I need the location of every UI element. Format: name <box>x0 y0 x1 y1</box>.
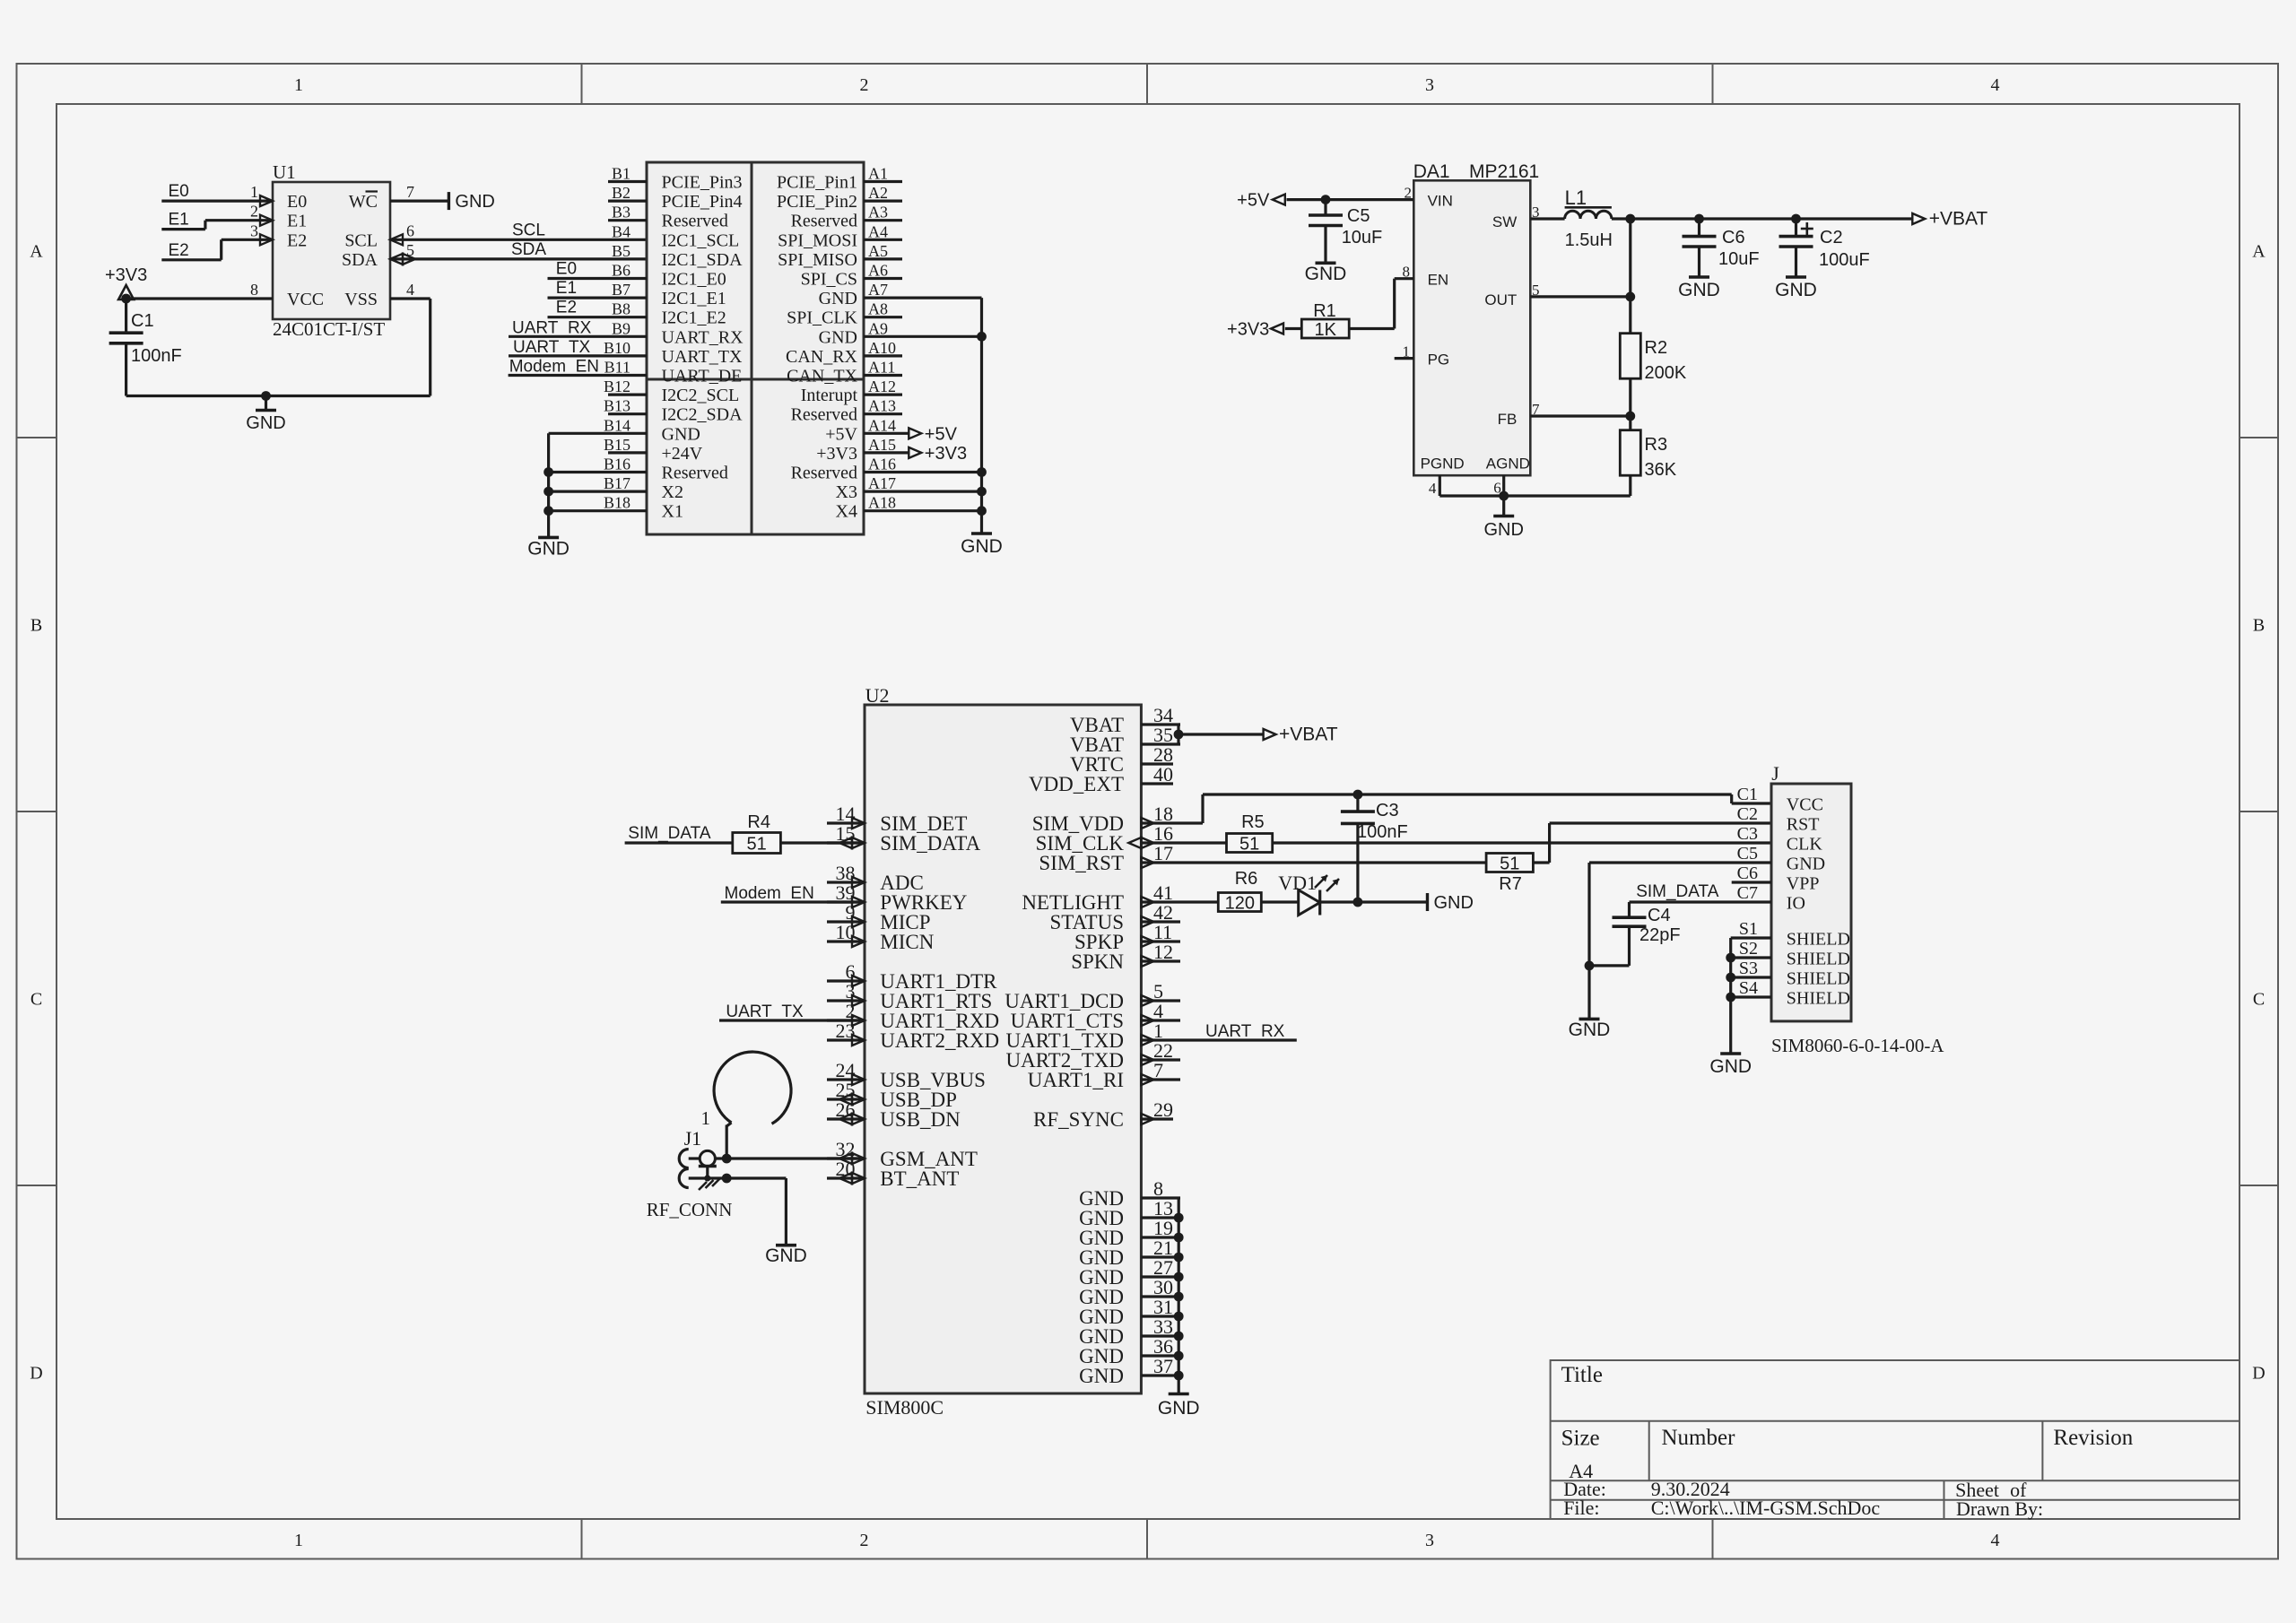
svg-text:36K: 36K <box>1645 460 1677 480</box>
svg-text:+24V: +24V <box>662 444 703 464</box>
svg-text:+5V: +5V <box>825 424 857 444</box>
svg-text:E1: E1 <box>287 212 307 231</box>
svg-text:E2: E2 <box>169 241 189 260</box>
svg-text:+VBAT: +VBAT <box>1279 725 1338 745</box>
svg-text:I2C1_E2: I2C1_E2 <box>662 308 726 328</box>
svg-text:1: 1 <box>1403 343 1411 360</box>
svg-text:100nF: 100nF <box>131 346 182 366</box>
svg-text:GND: GND <box>1569 1020 1611 1040</box>
svg-text:8: 8 <box>1403 264 1411 281</box>
svg-text:A6: A6 <box>868 262 888 280</box>
svg-text:17: 17 <box>1153 842 1173 864</box>
svg-text:+5V: +5V <box>925 424 958 444</box>
svg-text:SPKN: SPKN <box>1071 950 1124 973</box>
svg-text:A3: A3 <box>868 204 888 221</box>
svg-text:E0: E0 <box>169 182 189 201</box>
svg-text:GND: GND <box>527 539 570 560</box>
svg-text:B16: B16 <box>604 456 631 473</box>
svg-text:A9: A9 <box>868 319 888 337</box>
svg-text:S1: S1 <box>1739 919 1758 939</box>
svg-text:S2: S2 <box>1739 939 1758 959</box>
svg-text:E2: E2 <box>556 299 577 317</box>
svg-text:SPI_MOSI: SPI_MOSI <box>778 230 857 250</box>
svg-text:C5: C5 <box>1347 206 1370 226</box>
svg-text:1.5uH: 1.5uH <box>1565 230 1613 250</box>
svg-text:GND: GND <box>1305 264 1347 284</box>
svg-text:SPI_CLK: SPI_CLK <box>787 308 857 328</box>
svg-text:GND: GND <box>1775 280 1817 300</box>
svg-text:29: 29 <box>1153 1098 1173 1121</box>
svg-text:C: C <box>30 990 42 1010</box>
svg-text:SIM_DATA: SIM_DATA <box>880 832 980 855</box>
svg-text:5: 5 <box>1532 282 1540 299</box>
svg-text:B5: B5 <box>612 242 631 260</box>
svg-text:2: 2 <box>250 203 258 221</box>
svg-text:VCC: VCC <box>287 290 324 309</box>
svg-text:UART_TX: UART_TX <box>726 1002 804 1021</box>
svg-text:+3V3: +3V3 <box>105 265 147 285</box>
svg-text:37: 37 <box>1153 1355 1173 1377</box>
svg-text:A5: A5 <box>868 242 888 260</box>
svg-text:R2: R2 <box>1645 338 1668 358</box>
svg-text:PCIE_Pin4: PCIE_Pin4 <box>662 192 743 212</box>
svg-text:C:\Work\..\IM-GSM.SchDoc: C:\Work\..\IM-GSM.SchDoc <box>1651 1497 1881 1519</box>
svg-text:A2: A2 <box>868 184 888 202</box>
svg-text:GND: GND <box>819 327 857 347</box>
svg-text:6: 6 <box>406 221 414 239</box>
svg-text:UART_RX: UART_RX <box>1205 1022 1285 1041</box>
svg-text:A: A <box>30 242 43 262</box>
svg-text:7: 7 <box>1532 401 1540 418</box>
svg-text:GND: GND <box>1787 855 1825 874</box>
svg-text:S4: S4 <box>1739 978 1758 998</box>
svg-text:SCL: SCL <box>344 230 378 250</box>
svg-text:UART_RX: UART_RX <box>512 318 592 337</box>
svg-text:51: 51 <box>1239 835 1259 855</box>
svg-text:2: 2 <box>1405 185 1413 202</box>
svg-text:PCIE_Pin3: PCIE_Pin3 <box>662 173 743 193</box>
svg-text:U2: U2 <box>865 684 890 707</box>
svg-text:Revision: Revision <box>2053 1426 2133 1450</box>
svg-text:SPI_MISO: SPI_MISO <box>778 250 857 270</box>
svg-text:UART2_RXD: UART2_RXD <box>880 1029 999 1052</box>
svg-text:A15: A15 <box>868 436 896 454</box>
svg-text:I2C2_SCL: I2C2_SCL <box>662 386 740 405</box>
svg-text:1: 1 <box>294 75 303 95</box>
svg-text:A14: A14 <box>868 416 896 434</box>
svg-text:E1: E1 <box>556 279 577 298</box>
svg-text:GND: GND <box>1483 520 1523 540</box>
svg-text:2: 2 <box>860 1531 869 1550</box>
svg-text:B10: B10 <box>604 339 631 357</box>
svg-text:C1: C1 <box>1737 785 1758 804</box>
svg-text:B: B <box>30 616 42 636</box>
svg-text:GND: GND <box>1079 1365 1124 1387</box>
svg-text:C1: C1 <box>131 311 154 331</box>
svg-text:6: 6 <box>1493 480 1501 497</box>
svg-text:A8: A8 <box>868 300 888 318</box>
svg-text:B4: B4 <box>612 222 631 240</box>
svg-text:J1: J1 <box>684 1127 702 1150</box>
svg-text:USB_DN: USB_DN <box>880 1108 961 1131</box>
svg-text:CAN_RX: CAN_RX <box>786 347 858 367</box>
svg-text:GND: GND <box>819 289 857 308</box>
svg-text:2: 2 <box>860 75 869 95</box>
svg-text:1K: 1K <box>1315 320 1337 340</box>
svg-text:A4: A4 <box>868 222 888 240</box>
svg-text:X3: X3 <box>836 482 857 502</box>
svg-text:Number: Number <box>1662 1426 1736 1450</box>
svg-text:Drawn By:: Drawn By: <box>1956 1497 2043 1520</box>
svg-text:VDD_EXT: VDD_EXT <box>1029 773 1124 795</box>
svg-text:+3V3: +3V3 <box>816 444 857 464</box>
svg-text:Reserved: Reserved <box>791 464 857 483</box>
svg-text:R4: R4 <box>747 812 770 832</box>
svg-text:7: 7 <box>1153 1059 1163 1081</box>
svg-text:WC: WC <box>349 192 378 212</box>
svg-text:MICN: MICN <box>880 931 934 953</box>
svg-text:UART_TX: UART_TX <box>662 347 743 367</box>
svg-text:B13: B13 <box>604 397 631 415</box>
svg-text:CLK: CLK <box>1787 835 1823 855</box>
svg-text:I2C1_SCL: I2C1_SCL <box>662 230 740 250</box>
svg-text:SPI_CS: SPI_CS <box>801 270 857 290</box>
svg-text:AGND: AGND <box>1486 455 1530 472</box>
svg-text:24C01CT-I/ST: 24C01CT-I/ST <box>273 318 385 340</box>
svg-text:R7: R7 <box>1499 874 1522 894</box>
svg-text:I2C2_SDA: I2C2_SDA <box>662 405 744 425</box>
svg-text:PCIE_Pin2: PCIE_Pin2 <box>777 192 857 212</box>
svg-text:GND: GND <box>455 192 494 212</box>
svg-text:Reserved: Reserved <box>791 212 857 231</box>
svg-text:D: D <box>30 1364 42 1384</box>
svg-text:B15: B15 <box>604 436 631 454</box>
svg-text:120: 120 <box>1225 894 1255 914</box>
svg-text:E2: E2 <box>287 230 307 250</box>
svg-text:A1: A1 <box>868 165 888 183</box>
svg-text:D: D <box>2252 1364 2265 1384</box>
svg-text:3: 3 <box>1532 204 1540 221</box>
svg-text:GND: GND <box>1434 893 1474 913</box>
svg-text:B11: B11 <box>604 359 631 377</box>
svg-text:R5: R5 <box>1241 812 1265 832</box>
svg-text:BT_ANT: BT_ANT <box>880 1167 959 1190</box>
svg-text:PG: PG <box>1428 352 1450 369</box>
svg-text:A: A <box>2252 242 2266 262</box>
svg-text:C3: C3 <box>1376 801 1399 820</box>
svg-text:VIN: VIN <box>1428 193 1453 210</box>
svg-text:A13: A13 <box>868 397 896 415</box>
svg-text:Reserved: Reserved <box>662 464 728 483</box>
svg-text:10uF: 10uF <box>1342 228 1383 247</box>
svg-text:4: 4 <box>1991 75 2000 95</box>
svg-text:4: 4 <box>1429 480 1437 497</box>
svg-text:CAN_TX: CAN_TX <box>787 367 857 386</box>
svg-text:UART1_RI: UART1_RI <box>1028 1069 1124 1091</box>
svg-text:4: 4 <box>1991 1531 2000 1550</box>
svg-text:SHIELD: SHIELD <box>1787 950 1850 969</box>
svg-text:1: 1 <box>294 1531 303 1550</box>
svg-text:1: 1 <box>250 183 258 201</box>
svg-text:GND: GND <box>961 536 1003 557</box>
svg-text:A18: A18 <box>868 494 896 512</box>
svg-text:MP2161: MP2161 <box>1469 161 1539 182</box>
svg-text:S3: S3 <box>1739 959 1758 978</box>
svg-text:SHIELD: SHIELD <box>1787 969 1850 989</box>
svg-text:UART_DE: UART_DE <box>662 367 743 386</box>
svg-text:Modem_EN: Modem_EN <box>725 884 814 903</box>
svg-text:+3V3: +3V3 <box>925 444 967 464</box>
svg-text:+3V3: +3V3 <box>1227 320 1269 340</box>
svg-text:A16: A16 <box>868 456 896 473</box>
svg-text:SIM_RST: SIM_RST <box>1039 852 1124 874</box>
svg-text:VSS: VSS <box>344 290 378 309</box>
svg-text:C6: C6 <box>1737 864 1758 883</box>
svg-text:VPP: VPP <box>1787 874 1820 894</box>
svg-text:B8: B8 <box>612 300 631 318</box>
svg-text:VD1: VD1 <box>1278 872 1317 894</box>
svg-text:A10: A10 <box>868 339 896 357</box>
svg-text:C4: C4 <box>1648 906 1671 925</box>
svg-text:B9: B9 <box>612 319 631 337</box>
svg-text:GND: GND <box>662 424 700 444</box>
svg-text:U1: U1 <box>273 161 296 183</box>
svg-text:RF_CONN: RF_CONN <box>647 1199 733 1220</box>
svg-text:7: 7 <box>406 183 414 201</box>
svg-text:EN: EN <box>1428 272 1449 289</box>
svg-text:SDA: SDA <box>342 250 378 270</box>
svg-text:+5V: +5V <box>1237 191 1270 211</box>
svg-text:Modem_EN: Modem_EN <box>509 358 599 377</box>
svg-text:C3: C3 <box>1737 824 1758 844</box>
svg-text:B18: B18 <box>604 494 631 512</box>
svg-text:L1: L1 <box>1565 187 1587 209</box>
svg-text:B2: B2 <box>612 184 631 202</box>
svg-text:X1: X1 <box>662 502 683 522</box>
svg-text:+VBAT: +VBAT <box>1929 209 1988 230</box>
svg-text:PCIE_Pin1: PCIE_Pin1 <box>777 173 857 193</box>
svg-text:C2: C2 <box>1737 804 1758 824</box>
svg-text:GND: GND <box>1158 1398 1200 1419</box>
svg-text:E1: E1 <box>169 211 189 230</box>
svg-text:10uF: 10uF <box>1718 249 1760 269</box>
svg-text:SIM_DATA: SIM_DATA <box>628 824 711 843</box>
svg-text:J: J <box>1771 762 1779 785</box>
svg-text:51: 51 <box>746 835 766 855</box>
svg-text:X2: X2 <box>662 482 683 502</box>
svg-text:SDA: SDA <box>511 240 546 259</box>
svg-text:SIM_DATA: SIM_DATA <box>1636 882 1719 901</box>
svg-text:C7: C7 <box>1737 883 1758 903</box>
svg-text:B12: B12 <box>604 378 631 395</box>
svg-text:DA1: DA1 <box>1413 161 1450 182</box>
svg-text:I2C1_E0: I2C1_E0 <box>662 270 726 290</box>
svg-text:B6: B6 <box>612 262 631 280</box>
svg-text:GND: GND <box>765 1245 807 1266</box>
svg-text:4: 4 <box>406 281 414 299</box>
svg-text:Reserved: Reserved <box>791 405 857 425</box>
svg-text:SHIELD: SHIELD <box>1787 930 1850 950</box>
svg-text:B7: B7 <box>612 281 631 299</box>
svg-text:3: 3 <box>1425 75 1434 95</box>
svg-text:E0: E0 <box>287 192 307 212</box>
svg-text:51: 51 <box>1500 855 1519 874</box>
svg-text:PGND: PGND <box>1421 455 1465 472</box>
svg-text:Interupt: Interupt <box>801 386 858 405</box>
svg-text:GND: GND <box>246 413 285 433</box>
svg-text:R3: R3 <box>1645 435 1668 455</box>
svg-text:C2: C2 <box>1820 228 1843 247</box>
svg-text:File:: File: <box>1563 1497 1599 1519</box>
svg-text:Reserved: Reserved <box>662 212 728 231</box>
svg-text:A17: A17 <box>868 474 896 492</box>
svg-text:Title: Title <box>1561 1363 1603 1387</box>
svg-text:GND: GND <box>1709 1056 1752 1077</box>
svg-text:Size: Size <box>1561 1427 1600 1451</box>
svg-text:GND: GND <box>1678 280 1720 300</box>
svg-text:A11: A11 <box>868 359 895 377</box>
svg-text:3: 3 <box>1425 1531 1434 1550</box>
svg-text:40: 40 <box>1153 763 1173 785</box>
svg-text:SW: SW <box>1492 213 1517 230</box>
svg-text:IO: IO <box>1787 894 1805 914</box>
svg-text:100uF: 100uF <box>1819 250 1870 270</box>
svg-text:I2C1_E1: I2C1_E1 <box>662 289 726 308</box>
svg-text:1: 1 <box>701 1107 711 1129</box>
svg-text:UART_RX: UART_RX <box>662 327 744 347</box>
svg-text:UART_TX: UART_TX <box>513 338 591 357</box>
svg-text:3: 3 <box>250 221 258 239</box>
svg-text:B17: B17 <box>604 474 631 492</box>
svg-text:RF_SYNC: RF_SYNC <box>1033 1108 1124 1131</box>
svg-text:RST: RST <box>1787 815 1820 835</box>
svg-text:SIM800C: SIM800C <box>865 1396 944 1419</box>
svg-text:B: B <box>2253 616 2265 636</box>
svg-text:I2C1_SDA: I2C1_SDA <box>662 250 744 270</box>
svg-text:22pF: 22pF <box>1639 925 1681 945</box>
svg-text:C5: C5 <box>1737 844 1758 864</box>
svg-text:12: 12 <box>1153 941 1173 963</box>
svg-text:SHIELD: SHIELD <box>1787 989 1850 1009</box>
svg-text:100nF: 100nF <box>1357 822 1408 842</box>
svg-text:5: 5 <box>406 241 414 259</box>
svg-text:VCC: VCC <box>1787 795 1823 815</box>
svg-text:B1: B1 <box>612 165 631 183</box>
svg-text:X4: X4 <box>836 502 857 522</box>
svg-text:R6: R6 <box>1235 869 1258 889</box>
svg-text:C: C <box>2253 990 2265 1010</box>
svg-text:R1: R1 <box>1313 301 1336 321</box>
svg-text:200K: 200K <box>1645 363 1687 383</box>
svg-text:A7: A7 <box>868 281 888 299</box>
svg-text:8: 8 <box>250 281 258 299</box>
svg-text:A12: A12 <box>868 378 896 395</box>
svg-text:B14: B14 <box>604 416 631 434</box>
svg-text:OUT: OUT <box>1484 291 1517 308</box>
svg-text:SIM8060-6-0-14-00-A: SIM8060-6-0-14-00-A <box>1771 1035 1944 1056</box>
svg-text:C6: C6 <box>1722 228 1745 247</box>
svg-text:B3: B3 <box>612 204 631 221</box>
svg-text:FB: FB <box>1498 411 1518 428</box>
svg-text:SCL: SCL <box>512 221 545 239</box>
svg-text:E0: E0 <box>556 260 577 279</box>
